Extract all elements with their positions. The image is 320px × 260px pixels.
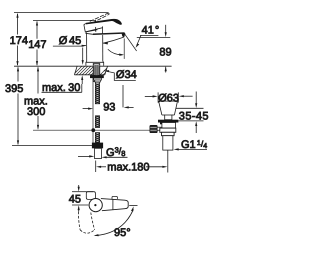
dimension 89 <box>165 25 167 73</box>
body top edge <box>86 33 94 34</box>
tail pipe <box>163 136 173 150</box>
svg-text:147: 147 <box>28 39 46 51</box>
water stream line <box>123 39 125 59</box>
svg-text:93: 93 <box>103 102 115 114</box>
svg-text:95°: 95° <box>114 227 131 239</box>
base plinth <box>85 61 88 65</box>
faucet body side view <box>86 26 104 65</box>
extension line 147 level <box>33 19 96 21</box>
nut <box>160 128 176 132</box>
handle front circle <box>89 199 102 212</box>
body <box>162 123 176 129</box>
35-45 dimension <box>176 107 204 109</box>
svg-text:G3/8: G3/8 <box>106 146 125 159</box>
svg-text:89: 89 <box>159 47 171 59</box>
svg-text:174: 174 <box>10 35 28 47</box>
89 top extension line (spout outlet level) <box>137 36 171 38</box>
Ø45 right arrow (points left at body right edge, tail along spout underside) <box>103 42 108 44</box>
dimension 147 <box>36 21 38 67</box>
G3/8 thread body <box>95 148 102 158</box>
flexible hose <box>94 82 101 144</box>
flange <box>158 120 178 123</box>
95 degree arc <box>129 205 137 207</box>
Ø34 label with box and leader <box>104 71 136 81</box>
spout <box>93 33 125 43</box>
rod joint dot <box>91 128 95 132</box>
Ø63 dimension <box>157 92 159 102</box>
lever handle (closed position, thick) <box>86 19 122 25</box>
mounting nut <box>90 75 104 78</box>
dimension max.300 <box>37 66 39 129</box>
41 deg swing arc <box>108 49 123 55</box>
tilt rod horizontal line <box>33 129 150 131</box>
rotated handle dashed outline <box>78 208 94 234</box>
svg-text:Ø34: Ø34 <box>116 69 137 81</box>
93 reference <box>122 85 124 107</box>
G3/8 connection nut <box>92 143 103 149</box>
top bump <box>112 196 117 199</box>
max.180 dimension <box>95 161 97 173</box>
svg-text:395: 395 <box>5 83 23 95</box>
45 dimension <box>78 185 80 188</box>
lever paddle outline <box>84 23 103 32</box>
ball rod knob <box>150 125 157 132</box>
plug top <box>159 100 178 102</box>
svg-text:max.180: max.180 <box>107 161 149 173</box>
spout axis diagonal (41 deg) <box>125 34 137 51</box>
pop-up rod <box>92 75 94 143</box>
body column <box>86 33 88 62</box>
pop-up waste drain assembly <box>150 101 179 150</box>
deck section with hatching <box>68 64 120 80</box>
deck/countertop reference line <box>14 65 172 67</box>
G3/8 label and arrows <box>78 155 90 157</box>
spout stub top view <box>86 192 95 200</box>
svg-text:300: 300 <box>27 106 45 118</box>
lever support vertical <box>102 26 104 33</box>
svg-text:45: 45 <box>69 193 81 205</box>
svg-text:35-45: 35-45 <box>179 110 209 122</box>
svg-text:Ø63: Ø63 <box>158 92 179 104</box>
lever raised position (thin dashed) <box>90 13 110 23</box>
extension line hose end (395 level) <box>12 145 92 147</box>
extension line top (174 level) <box>14 12 109 14</box>
svg-text:Ø45: Ø45 <box>59 35 81 47</box>
svg-text:41°: 41° <box>142 25 160 37</box>
dimension 395 <box>17 66 19 145</box>
dimension 174 <box>16 13 18 66</box>
handle grip top view <box>101 199 128 211</box>
threaded shank <box>92 64 101 83</box>
